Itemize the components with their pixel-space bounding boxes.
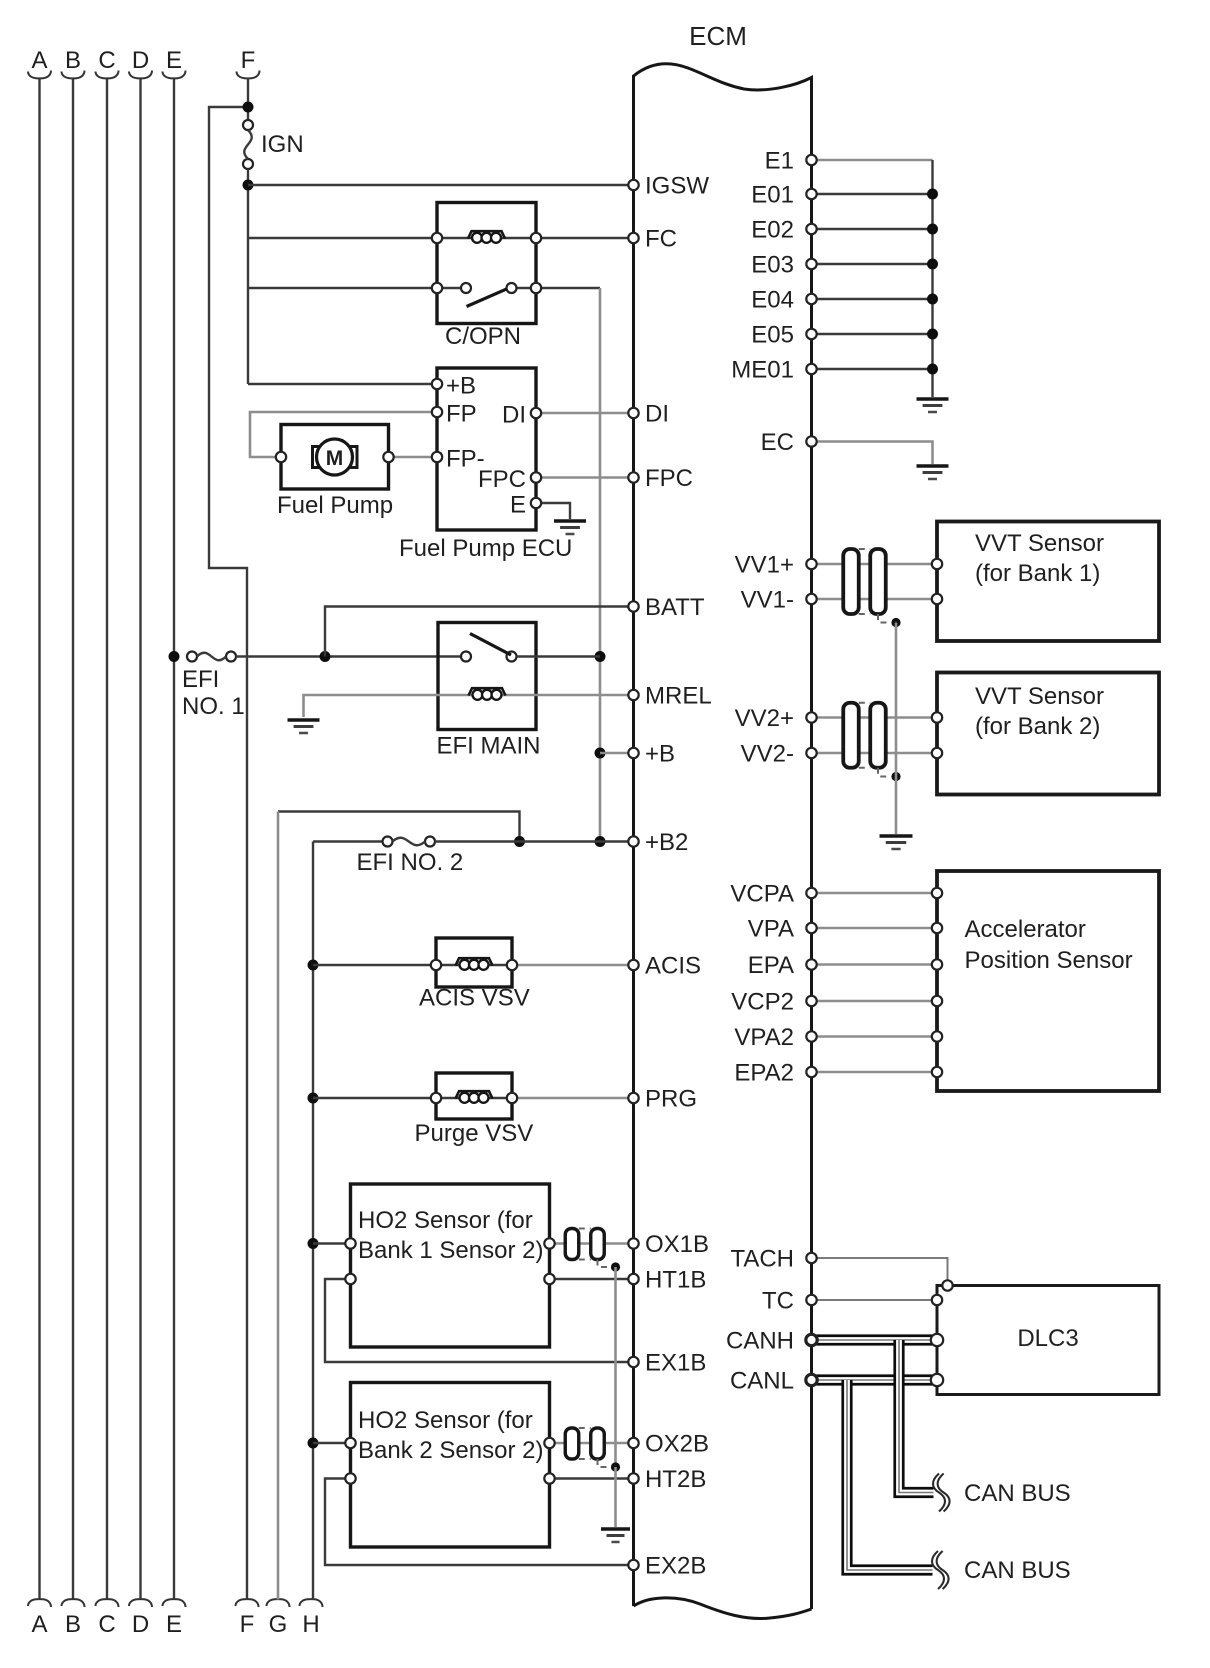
svg-text:EPA: EPA — [748, 952, 794, 979]
svg-text:NO. 1: NO. 1 — [182, 693, 245, 720]
svg-text:VCP2: VCP2 — [731, 989, 794, 1016]
svg-text:EPA2: EPA2 — [734, 1060, 794, 1087]
svg-text:F: F — [240, 1611, 255, 1638]
svg-text:Fuel Pump ECU: Fuel Pump ECU — [399, 535, 572, 562]
svg-text:D: D — [132, 1611, 149, 1638]
svg-text:VV2-: VV2- — [741, 741, 794, 768]
svg-text:B: B — [65, 1611, 81, 1638]
svg-text:A: A — [31, 1611, 47, 1638]
svg-text:HT1B: HT1B — [645, 1267, 706, 1294]
svg-text:CANH: CANH — [726, 1328, 794, 1355]
svg-text:VVT Sensor: VVT Sensor — [975, 683, 1104, 710]
svg-text:Accelerator: Accelerator — [965, 916, 1086, 943]
svg-text:E01: E01 — [751, 182, 794, 209]
svg-text:FPC: FPC — [478, 466, 526, 493]
svg-text:EX2B: EX2B — [645, 1553, 706, 1580]
svg-text:VCPA: VCPA — [730, 881, 794, 908]
svg-text:BATT: BATT — [645, 594, 705, 621]
svg-text:FPC: FPC — [645, 465, 693, 492]
svg-text:EC: EC — [761, 429, 794, 456]
svg-text:ACIS VSV: ACIS VSV — [419, 985, 530, 1012]
svg-text:E02: E02 — [751, 217, 794, 244]
svg-text:TC: TC — [762, 1288, 794, 1315]
svg-text:IGN: IGN — [261, 131, 304, 158]
svg-text:E: E — [510, 492, 526, 519]
svg-text:VV1-: VV1- — [741, 587, 794, 614]
svg-text:Position Sensor: Position Sensor — [965, 947, 1133, 974]
svg-text:PRG: PRG — [645, 1086, 697, 1113]
svg-text:IGSW: IGSW — [645, 173, 709, 200]
svg-text:ECM: ECM — [689, 21, 747, 51]
svg-text:Bank 1 Sensor 2): Bank 1 Sensor 2) — [358, 1237, 543, 1264]
svg-text:VPA: VPA — [748, 916, 794, 943]
svg-text:E04: E04 — [751, 287, 794, 314]
svg-text:FP: FP — [446, 401, 477, 428]
svg-text:OX1B: OX1B — [645, 1231, 709, 1258]
svg-text:MREL: MREL — [645, 683, 712, 710]
svg-text:+B: +B — [645, 741, 675, 768]
svg-text:F: F — [241, 47, 256, 74]
svg-text:HO2 Sensor (for: HO2 Sensor (for — [358, 1407, 533, 1434]
svg-text:E: E — [166, 47, 182, 74]
svg-text:VV2+: VV2+ — [735, 705, 794, 732]
svg-text:+B: +B — [446, 373, 476, 400]
svg-text:EFI NO. 2: EFI NO. 2 — [357, 849, 464, 876]
svg-text:C: C — [98, 1611, 115, 1638]
svg-text:CAN BUS: CAN BUS — [964, 1557, 1071, 1584]
svg-text:TACH: TACH — [730, 1246, 794, 1273]
svg-text:C/OPN: C/OPN — [445, 323, 521, 350]
svg-text:(for Bank 1): (for Bank 1) — [975, 560, 1100, 587]
svg-text:DLC3: DLC3 — [1017, 1325, 1078, 1352]
svg-text:D: D — [132, 47, 149, 74]
svg-text:FC: FC — [645, 226, 677, 253]
svg-text:HT2B: HT2B — [645, 1466, 706, 1493]
svg-text:H: H — [302, 1611, 319, 1638]
svg-text:CAN BUS: CAN BUS — [964, 1480, 1071, 1507]
svg-text:B: B — [65, 47, 81, 74]
svg-text:ME01: ME01 — [731, 357, 794, 384]
svg-text:CANL: CANL — [730, 1368, 794, 1395]
svg-text:E1: E1 — [765, 148, 794, 175]
svg-text:DI: DI — [502, 402, 526, 429]
svg-text:(for Bank 2): (for Bank 2) — [975, 713, 1100, 740]
svg-text:EFI: EFI — [182, 666, 219, 693]
svg-text:Bank 2 Sensor 2): Bank 2 Sensor 2) — [358, 1437, 543, 1464]
svg-text:M: M — [326, 447, 344, 470]
svg-text:VPA2: VPA2 — [734, 1024, 794, 1051]
svg-text:C: C — [98, 47, 115, 74]
svg-text:VV1+: VV1+ — [735, 552, 794, 579]
svg-text:EX1B: EX1B — [645, 1350, 706, 1377]
svg-text:ACIS: ACIS — [645, 953, 701, 980]
svg-text:Purge VSV: Purge VSV — [415, 1120, 534, 1147]
svg-text:A: A — [31, 47, 47, 74]
svg-text:E: E — [166, 1611, 182, 1638]
svg-text:G: G — [269, 1611, 288, 1638]
svg-text:VVT Sensor: VVT Sensor — [975, 530, 1104, 557]
svg-text:E05: E05 — [751, 322, 794, 349]
svg-text:E03: E03 — [751, 252, 794, 279]
svg-text:Fuel Pump: Fuel Pump — [277, 492, 393, 519]
svg-text:EFI MAIN: EFI MAIN — [437, 733, 541, 760]
svg-text:DI: DI — [645, 401, 669, 428]
svg-text:+B2: +B2 — [645, 829, 688, 856]
svg-text:HO2 Sensor (for: HO2 Sensor (for — [358, 1207, 533, 1234]
svg-text:OX2B: OX2B — [645, 1431, 709, 1458]
